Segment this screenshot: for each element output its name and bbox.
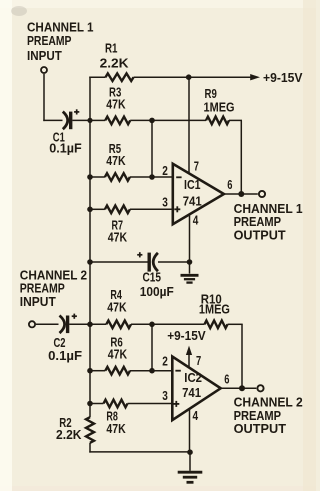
svg-text:INPUT: INPUT bbox=[20, 294, 56, 309]
svg-text:PREAMP: PREAMP bbox=[27, 33, 72, 48]
resistor R6 bbox=[90, 367, 172, 375]
text CHANNEL 1 PREAMP OUTPUT bbox=[234, 201, 303, 243]
pin 6 label IC2 bbox=[224, 371, 229, 386]
junction bbox=[87, 322, 93, 328]
plus sign C1 bbox=[74, 109, 79, 114]
resistor R10 bbox=[152, 321, 243, 389]
junction bbox=[87, 174, 93, 180]
pin 4 label IC1 bbox=[193, 213, 199, 228]
text CHANNEL 2 PREAMP OUTPUT bbox=[234, 395, 303, 437]
junction bbox=[239, 385, 245, 391]
pin 7 label IC2 bbox=[196, 353, 201, 368]
resistor R9 bbox=[152, 117, 242, 194]
resistor R8 bbox=[90, 400, 172, 408]
junction bbox=[149, 118, 155, 124]
input terminal channel 1 bbox=[41, 67, 47, 73]
svg-text:6: 6 bbox=[224, 371, 229, 386]
svg-text:R1: R1 bbox=[105, 41, 118, 56]
output terminal channel 2 bbox=[257, 385, 263, 391]
pin 2 label IC2 bbox=[162, 353, 168, 368]
svg-text:C15: C15 bbox=[143, 270, 162, 285]
wire output IC2 bbox=[220, 387, 256, 389]
svg-text:3: 3 bbox=[162, 194, 168, 209]
label R10 bbox=[199, 291, 230, 316]
label R6 bbox=[108, 334, 128, 361]
junction bbox=[87, 401, 93, 407]
svg-text:2: 2 bbox=[162, 353, 168, 368]
svg-text:+9-15V: +9-15V bbox=[167, 328, 206, 343]
op-amp IC1 bbox=[173, 164, 224, 224]
junction bbox=[87, 259, 93, 265]
label R1 bbox=[100, 41, 130, 71]
supply arrow +9-15V IC2 bbox=[167, 328, 206, 368]
label R3 bbox=[106, 84, 126, 111]
wire pin 4 IC2 bbox=[189, 410, 191, 452]
wire bbox=[90, 261, 190, 263]
label R8 bbox=[106, 409, 126, 437]
wire bbox=[89, 451, 190, 453]
text CHANNEL 1 PREAMP INPUT bbox=[27, 20, 94, 64]
pin 7 label IC1 bbox=[194, 158, 199, 173]
resistor R1 bbox=[89, 73, 251, 81]
ground bbox=[178, 452, 203, 482]
junction bbox=[87, 368, 93, 374]
junction bbox=[238, 191, 244, 197]
svg-text:100µF: 100µF bbox=[140, 284, 174, 299]
svg-text:IC1: IC1 bbox=[184, 177, 201, 192]
wire node pin2 IC1 bbox=[151, 120, 153, 177]
resistor R4 bbox=[106, 321, 152, 329]
label R9 bbox=[204, 86, 235, 114]
junction bbox=[149, 174, 155, 180]
label C15 bbox=[140, 270, 174, 300]
label R2 bbox=[56, 415, 82, 442]
wire output IC1 bbox=[224, 193, 258, 195]
junction bbox=[186, 74, 192, 80]
resistor R2 bbox=[86, 417, 94, 443]
wire left bus bbox=[89, 77, 91, 453]
svg-text:47K: 47K bbox=[107, 299, 127, 314]
label C1 bbox=[49, 129, 82, 155]
svg-text:47K: 47K bbox=[106, 153, 126, 168]
capacitor C1 bbox=[63, 112, 71, 130]
svg-text:2.2K: 2.2K bbox=[100, 55, 130, 70]
junction bbox=[149, 368, 155, 374]
junction bbox=[187, 259, 193, 265]
junction bbox=[87, 207, 93, 213]
pin 4 label IC2 bbox=[193, 408, 199, 423]
svg-text:47K: 47K bbox=[108, 347, 128, 362]
capacitor C2 bbox=[60, 316, 68, 334]
svg-text:47K: 47K bbox=[106, 97, 126, 112]
svg-text:OUTPUT: OUTPUT bbox=[234, 228, 286, 243]
wire bbox=[43, 74, 62, 121]
supply arrow +9-15V bbox=[250, 70, 303, 85]
op-amp IC2 bbox=[172, 357, 220, 421]
resistor R7 bbox=[90, 206, 173, 214]
svg-text:4: 4 bbox=[193, 408, 199, 423]
label C2 bbox=[48, 335, 82, 363]
svg-text:OUTPUT: OUTPUT bbox=[234, 421, 286, 436]
svg-text:4: 4 bbox=[193, 213, 199, 228]
resistor R3 bbox=[90, 117, 152, 125]
resistor R5 bbox=[90, 173, 173, 181]
svg-text:47K: 47K bbox=[108, 230, 128, 245]
text CHANNEL 2 PREAMP INPUT bbox=[20, 268, 87, 309]
svg-text:3: 3 bbox=[162, 388, 168, 403]
wire bbox=[72, 119, 90, 121]
svg-text:0.1µF: 0.1µF bbox=[48, 348, 82, 363]
svg-text:+9-15V: +9-15V bbox=[263, 70, 303, 85]
wire node pin2 IC2 bbox=[151, 324, 153, 371]
svg-text:2.2K: 2.2K bbox=[56, 427, 82, 442]
svg-text:6: 6 bbox=[227, 177, 232, 192]
label R7 bbox=[108, 218, 128, 245]
pin 2 label IC1 bbox=[162, 163, 168, 178]
pin 3 label IC1 bbox=[162, 194, 168, 209]
capacitor C15 bbox=[149, 253, 158, 272]
wire pin 4 IC1 bbox=[189, 214, 191, 263]
junction bbox=[187, 449, 193, 455]
input terminal channel 2 bbox=[29, 321, 35, 327]
wire bbox=[69, 323, 106, 325]
ground bbox=[181, 262, 199, 283]
svg-text:7: 7 bbox=[196, 353, 201, 368]
plus sign C2 bbox=[72, 314, 77, 319]
svg-text:0.1µF: 0.1µF bbox=[49, 141, 82, 156]
output terminal channel 1 bbox=[259, 191, 265, 197]
label R4 bbox=[107, 287, 127, 314]
wire pin 7 IC1 bbox=[188, 77, 190, 174]
junction bbox=[87, 118, 92, 123]
svg-text:1MEG: 1MEG bbox=[199, 302, 230, 317]
wire bbox=[36, 323, 59, 325]
svg-text:1MEG: 1MEG bbox=[204, 100, 235, 115]
junction bbox=[149, 322, 155, 328]
svg-text:47K: 47K bbox=[106, 421, 126, 436]
svg-text:741: 741 bbox=[182, 385, 201, 400]
label R5 bbox=[106, 141, 126, 168]
svg-text:741: 741 bbox=[183, 193, 202, 208]
pin 6 label IC1 bbox=[227, 177, 232, 192]
pin 3 label IC2 bbox=[162, 388, 168, 403]
svg-text:7: 7 bbox=[194, 158, 199, 173]
svg-text:INPUT: INPUT bbox=[27, 48, 62, 63]
plus sign C15 bbox=[137, 252, 142, 257]
svg-text:IC2: IC2 bbox=[184, 370, 202, 385]
svg-text:2: 2 bbox=[162, 163, 168, 178]
